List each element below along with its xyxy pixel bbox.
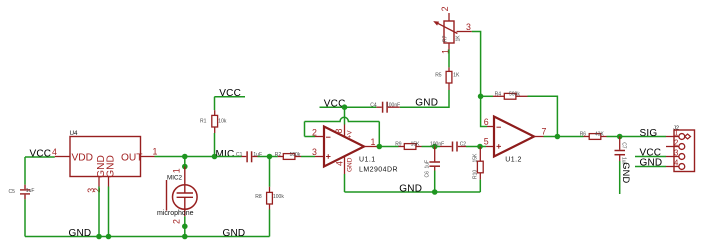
resistor R4 (493, 95, 504, 97)
wire: R4 to U1.2 output (528, 96, 558, 136)
svg-text:GND: GND (399, 183, 422, 194)
pin 4 of J2 (666, 166, 679, 168)
wire: R6 to SIG node (607, 136, 667, 138)
junction: C1/R2/R8 node (267, 154, 273, 160)
wire: R1 to MIC node (214, 133, 216, 157)
svg-text:7: 7 (542, 127, 547, 137)
wire: C1 to R2 (258, 156, 278, 158)
svg-text:GND: GND (69, 228, 92, 239)
pin OUT (pin 1) (141, 156, 155, 158)
svg-text:MIC: MIC (216, 149, 235, 160)
svg-text:2: 2 (172, 219, 182, 224)
pin GND (pin 2) (108, 177, 110, 187)
wire: trimpot wiper to R4 node (472, 32, 481, 97)
wire: U4 OUT to MIC node (155, 156, 215, 158)
svg-text:1uF: 1uF (26, 188, 35, 194)
trimpot pin 1 (448, 43, 450, 50)
svg-text:2: 2 (674, 139, 678, 148)
resistor R5 (448, 67, 450, 71)
wire: C2 to pin 5 (466, 146, 486, 148)
svg-text:3: 3 (312, 147, 317, 157)
trimpot pin 3 wiper (457, 31, 472, 33)
svg-text:R7: R7 (443, 35, 449, 42)
pin 1 output (364, 146, 378, 148)
wire: VCC down to pin 8 (344, 107, 346, 124)
svg-text:R4: R4 (495, 92, 502, 98)
svg-text:560k: 560k (509, 92, 520, 98)
pin 8 +V (344, 125, 346, 137)
svg-text:1K: 1K (455, 35, 461, 42)
wire: bottom GND bus (25, 236, 270, 238)
svg-text:15K: 15K (473, 153, 479, 163)
wire: U4 pin3 to GND bus (98, 187, 100, 237)
svg-text:3: 3 (466, 22, 471, 32)
connector J2 (674, 130, 695, 172)
svg-text:6: 6 (484, 117, 489, 127)
svg-text:4: 4 (52, 147, 57, 157)
wire: left rail above C5 (24, 157, 26, 185)
svg-text:1uF: 1uF (425, 160, 431, 169)
wire: C6 to mid GND (434, 171, 436, 193)
wire: pin2 stub (305, 136, 316, 138)
svg-text:C6: C6 (425, 171, 431, 178)
pin 1 of J2 (666, 136, 679, 138)
svg-text:4: 4 (674, 159, 679, 168)
op-amp U1.1 (324, 127, 364, 167)
IC U4 microphone preamp box (70, 137, 141, 177)
trimpot R7 (444, 21, 454, 43)
wire: U1.1 out to R9 (378, 146, 399, 148)
svg-text:100k: 100k (290, 152, 301, 158)
junction: mic pin2 wire (182, 224, 188, 230)
pin 6 inverting input (487, 126, 494, 128)
svg-text:43K: 43K (595, 132, 605, 138)
junction: C7 / SIG (617, 134, 623, 140)
pin 3 of J2 (666, 156, 679, 158)
wire: VCC to U4 VDD (25, 156, 55, 158)
wire: node down to pin 6 (481, 96, 487, 126)
junction: C6 at mid GND (432, 189, 438, 195)
svg-text:R10: R10 (473, 170, 479, 179)
svg-text:R5: R5 (435, 73, 442, 79)
svg-text:R9: R9 (395, 142, 402, 148)
trimpot R7 pin 2 (448, 13, 450, 21)
svg-text:U1.2: U1.2 (505, 157, 522, 164)
junction: pin3 at bus (96, 234, 102, 240)
svg-text:U1.1: U1.1 (359, 156, 376, 163)
svg-text:15K: 15K (411, 142, 421, 148)
resistor R6 (584, 136, 590, 138)
junction: C6 top (432, 144, 438, 150)
svg-text:OUT: OUT (121, 152, 143, 163)
junction: VCC / pin8 (342, 104, 348, 110)
wire: U1.1 pin4 to mid GND (344, 174, 346, 192)
svg-text:GND: GND (106, 155, 117, 178)
svg-text:100nF: 100nF (386, 102, 400, 108)
junction: pin2 at bus (106, 234, 112, 240)
svg-text:GND: GND (621, 162, 631, 183)
junction: U1.1 output (377, 144, 383, 150)
op-amp U1.2 (494, 117, 534, 157)
capacitor C5 (20, 185, 30, 200)
wire: R2 to op-amp pin 3 (301, 156, 315, 158)
svg-text:2: 2 (92, 188, 102, 193)
resistor R1 (214, 110, 216, 115)
svg-text:10k: 10k (218, 118, 227, 124)
wire: mic drop (184, 157, 186, 167)
pin 2 inverting input (315, 136, 324, 138)
wire: C4 to GND corner (400, 90, 449, 107)
wire: R8 to GND bus (269, 210, 271, 237)
svg-text:C4: C4 (370, 102, 377, 108)
resistor R9 (399, 146, 405, 148)
svg-text:C7: C7 (621, 142, 627, 149)
wire: mic pin2 to bus (184, 216, 186, 236)
pin GND (pin 3) (98, 177, 100, 187)
wire: feedback top with hop (305, 117, 380, 121)
microphone MIC2 (167, 167, 198, 217)
resistor R8 (269, 187, 271, 193)
resistor R2 (278, 156, 284, 158)
svg-text:1: 1 (371, 137, 376, 147)
svg-text:1: 1 (172, 168, 182, 173)
svg-text:R1: R1 (200, 118, 207, 124)
svg-text:U4: U4 (70, 130, 79, 137)
svg-text:GND: GND (415, 98, 438, 109)
pin VDD (pin 4) (55, 156, 70, 158)
pin 7 output (534, 136, 544, 138)
wire: VCC to R1 (214, 97, 216, 110)
wire: R9 to C6 node to C2 (422, 146, 441, 148)
wire: U4 pin2 to GND bus (108, 187, 110, 237)
svg-text:R2: R2 (275, 152, 282, 158)
junction: mic pin 1 (182, 164, 188, 170)
resistor R10 (479, 147, 481, 162)
capacitor C1 (242, 156, 247, 158)
svg-text:8: 8 (334, 129, 344, 134)
svg-text:1: 1 (674, 129, 678, 138)
wire: node to R4 (481, 95, 493, 97)
wire: R10 to mid GND (479, 180, 481, 192)
pin 5 non-inverting input (486, 146, 494, 148)
junction: pin5 / R10 (477, 144, 483, 150)
svg-text:GND: GND (223, 228, 246, 239)
pin 4 GND (344, 157, 346, 175)
wire: MIC node to C1 (215, 156, 242, 158)
svg-text:VDD: VDD (72, 152, 94, 163)
svg-text:VCC: VCC (30, 148, 52, 159)
junction: U1.2 output (555, 134, 561, 140)
svg-text:VCC: VCC (219, 88, 241, 99)
svg-text:LM2904DR: LM2904DR (359, 166, 398, 173)
junction: mic at bus (182, 234, 188, 240)
svg-text:R6: R6 (580, 132, 587, 138)
wire: trimpot pin1 to R5 (448, 50, 450, 68)
wire: U1.2 out to junction (544, 136, 558, 138)
wire: out junction to R6 (557, 136, 583, 138)
junction: mic column top (182, 154, 188, 160)
svg-text:R8: R8 (255, 194, 262, 200)
capacitor C6 (434, 147, 436, 162)
wire: mid GND line (345, 191, 481, 193)
wire: R8 column (269, 157, 271, 187)
junction: R1 at MIC node (212, 154, 218, 160)
svg-text:microphone: microphone (157, 210, 194, 217)
svg-text:+V: +V (347, 130, 354, 139)
junction: R4 / pin6 node (478, 94, 484, 100)
node: VCC stub top left (214, 96, 245, 98)
svg-text:100k: 100k (273, 194, 284, 200)
svg-text:GND: GND (347, 157, 354, 172)
pin 2 of J2 (666, 146, 679, 148)
capacitor C7 (619, 137, 621, 150)
svg-text:MIC2: MIC2 (167, 175, 183, 182)
capacitor C2 (440, 146, 452, 148)
svg-text:1K: 1K (453, 73, 460, 79)
svg-text:5: 5 (484, 137, 489, 147)
wire: VCC mid stub (320, 106, 377, 108)
svg-text:2: 2 (440, 6, 450, 11)
pin 3 non-inverting input (315, 156, 324, 158)
svg-text:C5: C5 (9, 189, 16, 195)
capacitor C4 (376, 106, 381, 108)
svg-text:4: 4 (335, 161, 345, 166)
wire: GND to J2 pin4 (635, 166, 666, 168)
wire: feedback left vertical (304, 122, 306, 137)
svg-text:SIG: SIG (640, 128, 658, 139)
wire: VCC to J2 pin3 (635, 156, 666, 158)
svg-text:3: 3 (674, 149, 678, 158)
svg-text:C2: C2 (460, 142, 467, 148)
wire: feedback right vertical (378, 122, 380, 147)
wire: left rail below C5 (24, 199, 26, 236)
svg-text:1: 1 (153, 147, 158, 157)
wire: C7 to GND (619, 161, 621, 194)
